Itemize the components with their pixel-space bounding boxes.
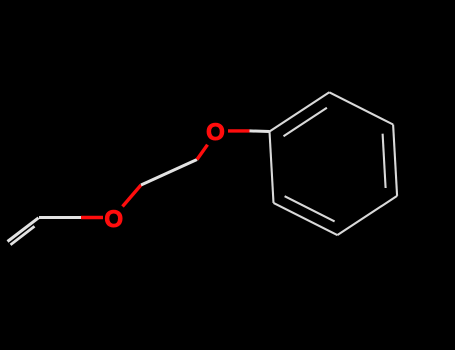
bond CH2-CH2 white segment [141, 160, 197, 186]
benzene ring outer edges [270, 92, 398, 235]
bond CH2-O2 red half [197, 145, 208, 160]
svg-text:O: O [104, 206, 123, 233]
ring inner double-bond line 1 [284, 108, 327, 136]
bond CH=CH-O1 white half [39, 216, 81, 219]
ring inner double-bond line 3 [285, 196, 335, 221]
vinyl double bond C=C inner line [11, 226, 35, 245]
bond O2-ring red half [228, 129, 250, 132]
vinyl double bond C=C outer line [8, 218, 39, 242]
ring inner double-bond line 2 [383, 134, 386, 188]
bond O2-ring white half [250, 129, 270, 133]
bond O1-CH2 red half [123, 185, 142, 207]
bond CH-O1 red half [81, 216, 103, 219]
svg-text:O: O [206, 119, 225, 146]
